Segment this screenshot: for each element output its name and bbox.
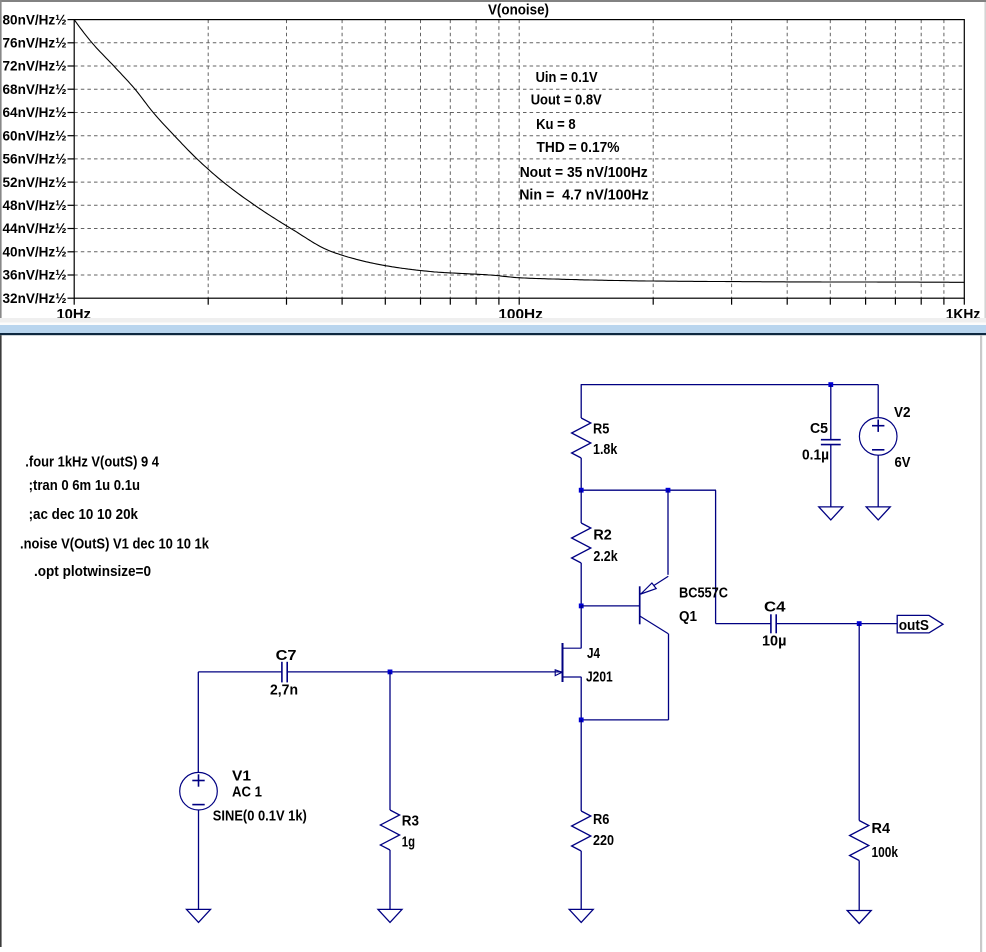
junction outS node xyxy=(857,621,862,626)
ground V1 xyxy=(187,909,211,922)
svg-text:R3: R3 xyxy=(402,814,419,830)
svg-text:.four 1kHz V(outS) 9 4: .four 1kHz V(outS) 9 4 xyxy=(25,455,159,471)
svg-text:C7: C7 xyxy=(276,648,297,664)
svg-text:60nV/Hz½: 60nV/Hz½ xyxy=(3,128,67,143)
wire base xyxy=(581,605,639,607)
svg-text:Ku = 8: Ku = 8 xyxy=(536,116,576,133)
svg-text:THD = 0.17%: THD = 0.17% xyxy=(537,139,620,156)
pane separator band xyxy=(0,318,986,323)
svg-text:56nV/Hz½: 56nV/Hz½ xyxy=(3,152,67,167)
junction emitter column xyxy=(666,488,671,493)
axis ticks xyxy=(68,20,965,305)
junction source node xyxy=(579,718,584,723)
svg-text:2.2k: 2.2k xyxy=(593,549,618,565)
svg-text:;ac dec 10 10 20k: ;ac dec 10 10 20k xyxy=(29,507,139,523)
svg-text:44nV/Hz½: 44nV/Hz½ xyxy=(3,221,67,236)
plot grid xyxy=(74,20,964,299)
svg-text:SINE(0 0.1V 1k): SINE(0 0.1V 1k) xyxy=(213,809,307,825)
spice directives xyxy=(20,455,210,581)
svg-text:6V: 6V xyxy=(895,455,911,471)
plot pane top border xyxy=(0,0,986,2)
schematic pane right border xyxy=(980,335,982,952)
svg-text:80nV/Hz½: 80nV/Hz½ xyxy=(3,12,67,27)
schematic pane left border xyxy=(0,335,2,947)
svg-text:100k: 100k xyxy=(872,845,899,861)
svg-text:64nV/Hz½: 64nV/Hz½ xyxy=(3,105,67,120)
resistor R6 xyxy=(580,720,582,811)
plot pane left border xyxy=(0,0,2,318)
svg-text:Q1: Q1 xyxy=(679,609,697,625)
svg-text:BC557C: BC557C xyxy=(679,586,728,602)
svg-text:R2: R2 xyxy=(593,528,611,544)
wire emitter node rail xyxy=(581,489,716,491)
svg-text:C4: C4 xyxy=(764,600,786,616)
capacitor C5 xyxy=(830,385,832,440)
resistor R5 xyxy=(580,385,582,418)
svg-text:Uout = 0.8V: Uout = 0.8V xyxy=(531,92,602,109)
svg-text:V1: V1 xyxy=(232,769,251,785)
wire drain up xyxy=(580,606,582,648)
plot axes box xyxy=(74,20,964,299)
svg-text:32nV/Hz½: 32nV/Hz½ xyxy=(3,291,67,306)
svg-text:10µ: 10µ xyxy=(762,634,786,650)
svg-text:72nV/Hz½: 72nV/Hz½ xyxy=(3,59,67,74)
ground C5 xyxy=(819,507,843,520)
svg-text:52nV/Hz½: 52nV/Hz½ xyxy=(3,175,67,190)
wire top supply rail xyxy=(581,384,879,386)
svg-text:68nV/Hz½: 68nV/Hz½ xyxy=(3,82,67,97)
voltage source V2 xyxy=(877,385,879,418)
svg-text:1g: 1g xyxy=(402,835,415,851)
ground R6 xyxy=(569,909,593,922)
svg-text:outS: outS xyxy=(899,618,930,634)
ground R3 xyxy=(378,909,402,922)
svg-text:V(onoise): V(onoise) xyxy=(488,2,549,19)
svg-text:V2: V2 xyxy=(894,405,911,421)
wire collector down xyxy=(668,634,670,720)
capacitor C4 xyxy=(716,623,771,625)
svg-text:.opt plotwinsize=0: .opt plotwinsize=0 xyxy=(34,564,151,580)
svg-text:C5: C5 xyxy=(810,421,828,437)
junction rail/C5 xyxy=(828,382,833,387)
svg-text:1.8k: 1.8k xyxy=(593,442,618,458)
svg-text:J4: J4 xyxy=(587,646,600,662)
noise curve V(onoise) xyxy=(74,20,964,283)
svg-text:48nV/Hz½: 48nV/Hz½ xyxy=(3,198,67,213)
svg-text:Nout = 35 nV/100Hz: Nout = 35 nV/100Hz xyxy=(520,164,648,181)
svg-text:R5: R5 xyxy=(593,422,609,438)
svg-text:R4: R4 xyxy=(872,821,891,837)
resistor R4 xyxy=(858,624,860,821)
svg-text:R6: R6 xyxy=(593,812,609,828)
svg-text:2,7n: 2,7n xyxy=(270,683,298,699)
plot pane right border xyxy=(984,2,986,318)
wire source down xyxy=(580,677,582,720)
plot annotations xyxy=(519,69,649,204)
svg-text:;tran 0 6m 1u 0.1u: ;tran 0 6m 1u 0.1u xyxy=(29,478,140,494)
junction R5/R2 xyxy=(579,488,584,493)
wire collector loop xyxy=(581,719,668,721)
ground V2 xyxy=(866,507,890,520)
transistor Q1 BC557C (PNP) xyxy=(639,586,641,624)
net flag outS xyxy=(897,615,943,633)
svg-text:40nV/Hz½: 40nV/Hz½ xyxy=(3,245,67,260)
junction base node xyxy=(579,604,584,609)
svg-text:36nV/Hz½: 36nV/Hz½ xyxy=(3,268,67,283)
ground R4 xyxy=(847,911,871,924)
svg-text:Uin = 0.1V: Uin = 0.1V xyxy=(536,69,598,86)
y axis labels xyxy=(3,12,67,306)
capacitor C7 xyxy=(198,671,282,673)
resistor R3 xyxy=(389,672,391,810)
svg-text:0.1µ: 0.1µ xyxy=(802,448,829,464)
resistor R2 xyxy=(580,490,582,523)
svg-text:AC 1: AC 1 xyxy=(232,785,262,801)
svg-text:J201: J201 xyxy=(586,670,613,686)
svg-text:76nV/Hz½: 76nV/Hz½ xyxy=(3,36,67,51)
svg-text:220: 220 xyxy=(593,833,614,849)
svg-text:Nin = 4.7 nV/100Hz: Nin = 4.7 nV/100Hz xyxy=(519,187,649,204)
wire emitter up xyxy=(667,490,669,575)
svg-text:.noise V(OutS) V1 dec 10 10 1k: .noise V(OutS) V1 dec 10 10 1k xyxy=(20,536,210,552)
junction R3/gate xyxy=(388,670,393,675)
voltage source V1 xyxy=(197,672,199,773)
jfet J4 J201 xyxy=(562,643,564,682)
